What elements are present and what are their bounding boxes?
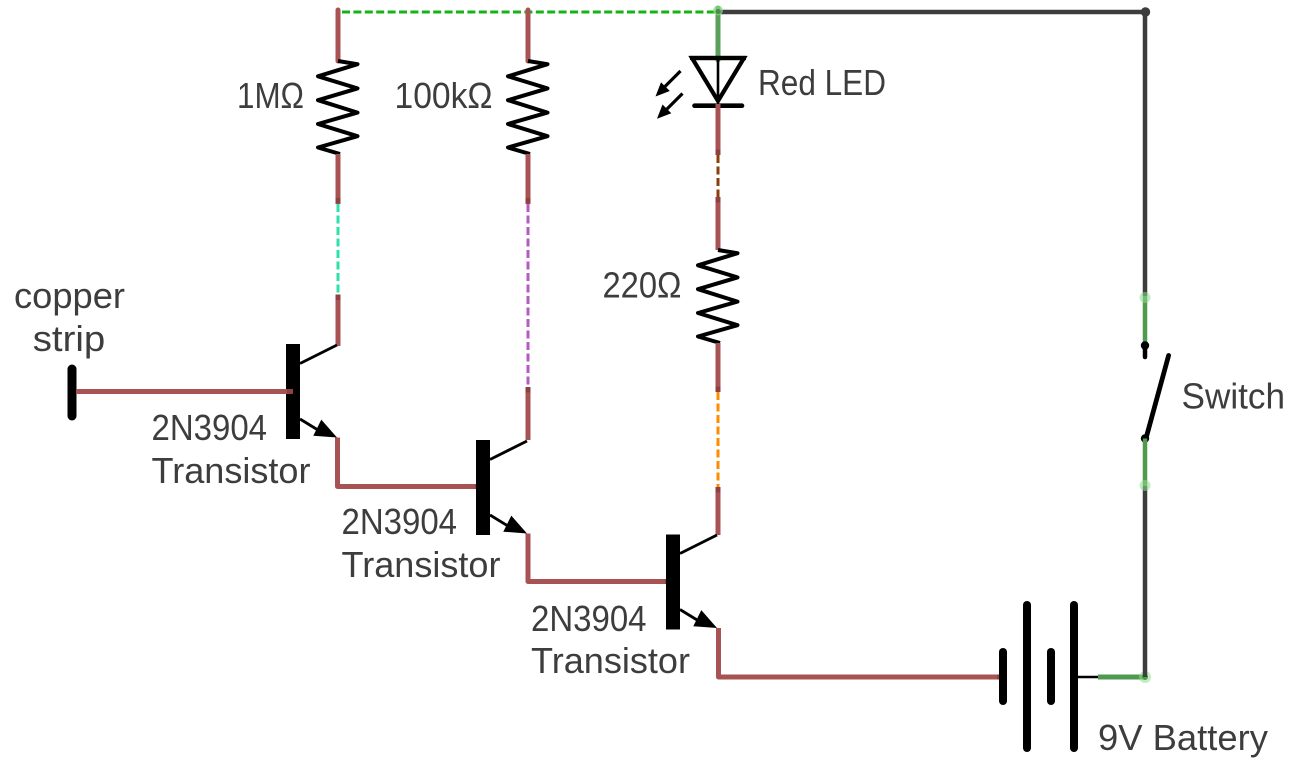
transistor Q2 collector line bbox=[490, 441, 527, 460]
nub at 220Ω top lead bbox=[716, 197, 721, 203]
svg-text:Transistor: Transistor bbox=[152, 450, 311, 491]
battery BT1 negative plate 2 (short) bbox=[1047, 652, 1055, 701]
switch S1 upper contact dot bbox=[1141, 341, 1149, 349]
switch S1 upper green lead bbox=[1143, 296, 1148, 344]
nub at LED cathode lead end bbox=[716, 150, 721, 156]
transistor Q2 emitter arrowhead bbox=[503, 516, 527, 534]
nub at 100kΩ bottom lead end bbox=[526, 198, 531, 204]
battery BT1 negative plate (short) bbox=[999, 652, 1007, 701]
svg-text:Red LED: Red LED bbox=[758, 62, 886, 103]
nub at 220Ω bottom lead end bbox=[716, 387, 721, 393]
nub at Q2 collector lead top bbox=[526, 387, 531, 393]
transistor Q3 collector line bbox=[680, 535, 717, 554]
wire: Q1 emitter to Q2 base bbox=[338, 438, 482, 487]
LED D1 anode wire (green) bbox=[716, 8, 721, 60]
transistor Q2 body bar bbox=[476, 440, 490, 535]
resistor 100kΩ zigzag body bbox=[508, 61, 548, 154]
wire: top bus ratsnest dashed green bbox=[342, 11, 716, 14]
transistor Q1 collector line bbox=[300, 345, 337, 364]
resistor 220Ω zigzag body bbox=[698, 250, 738, 343]
LED D1 top bar extension bbox=[690, 56, 746, 60]
battery BT1 positive plate 2 (long) bbox=[1070, 605, 1078, 748]
LED light arrow 2 shaft bbox=[666, 94, 683, 111]
wire: Q1 collector lead (red) bbox=[336, 295, 341, 347]
resistor 1MΩ bottom lead wire bbox=[336, 154, 341, 204]
svg-text:Switch: Switch bbox=[1182, 376, 1286, 417]
svg-text:2N3904: 2N3904 bbox=[531, 598, 647, 639]
svg-text:2N3904: 2N3904 bbox=[342, 501, 458, 542]
battery BT1 positive plate (long) bbox=[1023, 605, 1031, 748]
switch S1 lower green lead bbox=[1143, 439, 1148, 487]
resistor 100kΩ top lead wire bbox=[526, 10, 531, 61]
svg-text:220Ω: 220Ω bbox=[603, 265, 682, 306]
svg-text:2N3904: 2N3904 bbox=[152, 407, 268, 448]
nub at Q1 base wire end bbox=[287, 389, 293, 394]
nub at Q1 collector lead top bbox=[336, 295, 341, 301]
nub at Q3 base wire end bbox=[665, 579, 671, 584]
switch S1 lower contact dot bbox=[1141, 434, 1149, 442]
resistor R 1MΩ zigzag body bbox=[318, 61, 358, 154]
wire: ratsnest dashed brown (LED to 220Ω) bbox=[717, 155, 720, 197]
LED light arrow 2 head bbox=[657, 105, 671, 119]
transistor Q1 body bar bbox=[286, 344, 300, 439]
wire: Q3 collector lead (red) bbox=[716, 487, 721, 535]
LED D1 cathode bar bbox=[695, 103, 743, 108]
switch S1 lower glow ring bbox=[1140, 480, 1151, 491]
resistor 1MΩ top lead wire bbox=[336, 10, 341, 61]
svg-text:Transistor: Transistor bbox=[531, 640, 690, 681]
transistor Q2 emitter line bbox=[490, 515, 512, 529]
wire: right rail lower segment bbox=[1143, 486, 1148, 677]
nub at Q2 base wire end bbox=[475, 484, 481, 489]
svg-text:9V Battery: 9V Battery bbox=[1098, 717, 1268, 758]
nub at 1MΩ bottom lead end bbox=[336, 198, 341, 204]
transistor Q1 emitter line bbox=[300, 419, 322, 433]
LED cathode lead wire (red) bbox=[716, 104, 721, 155]
LED D1 triangle body bbox=[692, 58, 744, 101]
svg-text:100kΩ: 100kΩ bbox=[395, 75, 493, 116]
LED D1 center vertical line bbox=[717, 58, 720, 101]
nub at Q3 collector lead top bbox=[716, 487, 721, 493]
switch S1 lever bbox=[1147, 356, 1169, 437]
switch S1 upper glow ring bbox=[1140, 292, 1151, 303]
node: LED top junction green glow dot bbox=[713, 6, 723, 16]
wire: right rail upper segment bbox=[1143, 12, 1148, 296]
wire: Q2 emitter to Q3 base bbox=[528, 534, 671, 582]
transistor Q1 emitter arrowhead bbox=[313, 420, 337, 438]
copper strip electrode bar bbox=[68, 369, 77, 416]
wire: copper strip to Q1 base bbox=[76, 389, 293, 394]
LED light arrow 1 shaft bbox=[664, 71, 681, 88]
switch S1 upper contact stub bbox=[1143, 346, 1148, 358]
node: battery-rail junction green glow dot bbox=[1139, 671, 1151, 683]
wire: ratsnest dashed purple (100kΩ to Q2 collector) bbox=[527, 204, 530, 387]
LED light arrow 1 head bbox=[656, 82, 670, 96]
resistor 100kΩ bottom lead wire bbox=[526, 154, 531, 204]
transistor Q3 body bar bbox=[666, 535, 680, 630]
transistor Q3 emitter arrowhead bbox=[693, 610, 717, 628]
transistor Q3 emitter line bbox=[680, 610, 702, 624]
wire: ratsnest dashed cyan (1MΩ to Q1 collector) bbox=[337, 204, 340, 294]
resistor 220Ω bottom lead wire bbox=[716, 343, 721, 392]
wire: top bus solid dark (LED node to right rail) bbox=[718, 10, 1145, 15]
node: top-right corner junction dot bbox=[1141, 7, 1150, 16]
svg-text:copper: copper bbox=[14, 275, 125, 316]
svg-text:1MΩ: 1MΩ bbox=[237, 75, 304, 116]
svg-text:strip: strip bbox=[33, 318, 106, 359]
nub at battery negative wire end bbox=[997, 675, 1003, 680]
wire: battery positive to right rail (green) bbox=[1098, 675, 1145, 680]
wire: ratsnest dashed orange (220Ω to Q3 collector) bbox=[717, 392, 720, 487]
resistor 220Ω top lead wire bbox=[716, 197, 721, 250]
wire: Q2 collector lead (red) bbox=[526, 387, 531, 440]
wire: Q3 emitter to battery negative bbox=[719, 628, 1004, 677]
svg-text:Transistor: Transistor bbox=[342, 544, 501, 585]
wire: battery positive stub (thin black) bbox=[1078, 676, 1099, 679]
